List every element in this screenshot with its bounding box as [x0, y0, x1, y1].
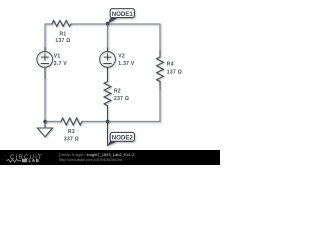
voltage source V2: [100, 52, 116, 68]
svg-text:V1: V1: [54, 54, 61, 60]
voltage source V2 pin bottom / resistor R2 pin top: [107, 67, 109, 81]
footer logo LAB: [22, 159, 27, 162]
svg-text:R4: R4: [167, 62, 174, 68]
svg-text:R2: R2: [114, 88, 121, 94]
footer bar: [0, 150, 220, 165]
resistor R4: [157, 57, 164, 82]
voltage source V1: [37, 52, 53, 68]
flag NODE1 tail: [107, 17, 117, 24]
svg-text:337 Ω: 337 Ω: [64, 137, 79, 143]
svg-text:137 Ω: 137 Ω: [55, 38, 70, 44]
svg-text:R1: R1: [60, 31, 67, 37]
resistor R4 pin top: [159, 51, 161, 57]
component symbols (dark): [37, 21, 164, 146]
svg-text:R3: R3: [68, 129, 75, 135]
ground stub: [44, 122, 46, 129]
svg-text:3.7 V: 3.7 V: [54, 61, 68, 67]
wire bottom rail: R3 to node2 to bottom-right corner: [82, 121, 161, 123]
wire top rail: R1 to node1 to right corner: [71, 23, 160, 25]
footer logo zigzag: [7, 159, 22, 162]
resistor R4 pin bottom: [159, 82, 161, 90]
flag NODE1 box: [110, 9, 134, 18]
ground symbol: [38, 128, 53, 137]
svg-text:1.37 V: 1.37 V: [118, 61, 135, 67]
svg-text:NODE2: NODE2: [112, 135, 134, 142]
wire V1 to bottom-left junction: [44, 78, 46, 122]
resistor R2 pin bottom: [107, 106, 109, 122]
svg-text:http://circuitlab.com/c87b4a92: http://circuitlab.com/c87b4a92bk3rd: [59, 157, 122, 162]
svg-text:LAB: LAB: [29, 158, 40, 163]
resistor R3: [61, 118, 82, 125]
resistor R2: [104, 82, 111, 106]
background canvas: [0, 0, 220, 165]
wire left rail down to V1: [44, 24, 46, 49]
wire node1 down to V2: [107, 24, 109, 49]
voltage source V2 pin top: [107, 48, 109, 52]
connecting wires (light): [45, 24, 161, 123]
wire top rail: corner to R1: [45, 23, 52, 25]
wire stub node2 junction to flag anchor: [107, 122, 109, 146]
resistor R1: [52, 21, 71, 27]
voltage source V1 pin top: [44, 48, 46, 52]
junction node1: [106, 22, 109, 25]
flag NODE2 box: [110, 132, 134, 141]
wire bottom rail: junction to R3: [45, 121, 61, 123]
wire right rail down to R4: [159, 24, 161, 52]
flag NODE2 tail: [107, 139, 117, 146]
voltage source V1 pin bottom: [44, 67, 46, 78]
wire R4 to bottom-right corner: [159, 89, 161, 122]
junction bottom-left: [43, 120, 46, 123]
svg-text:137 Ω: 137 Ω: [167, 69, 182, 75]
svg-text:V2: V2: [118, 53, 125, 59]
svg-text:NODE1: NODE1: [112, 11, 134, 18]
junction node2: [106, 120, 109, 123]
svg-text:237 Ω: 237 Ω: [114, 96, 129, 102]
